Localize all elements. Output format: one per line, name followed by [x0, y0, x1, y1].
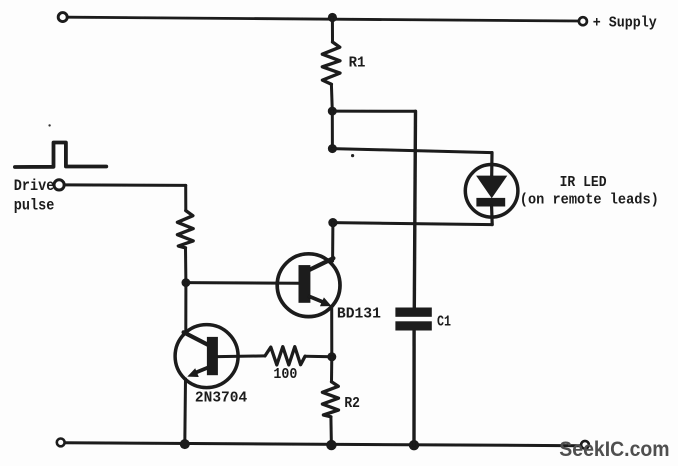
wire 2N3704 collector lead [184, 283, 187, 333]
terminal bottom right [581, 441, 589, 449]
capacitor C1 top plate [395, 308, 431, 317]
wire R1 top lead [331, 18, 334, 43]
transistor Q1 base bar [207, 337, 218, 375]
LED D1 cathode bar [476, 198, 505, 207]
svg-text:BD131: BD131 [337, 306, 381, 323]
resistor R1 [322, 42, 340, 84]
resistor R2 [322, 382, 338, 417]
transistor Q1 2N3704 circle [175, 325, 238, 388]
wire to LED [332, 149, 492, 153]
wire node to C1 branch [332, 110, 415, 113]
node emitter/R2/100 [327, 352, 336, 361]
LED D1 circle [465, 165, 518, 218]
svg-text:100: 100 [273, 366, 297, 383]
terminal + supply left [58, 13, 67, 22]
terminal drive pulse [54, 180, 64, 190]
svg-text:R1: R1 [349, 54, 366, 71]
capacitor C1 bottom plate [395, 321, 431, 330]
transistor Q2 base bar [299, 265, 311, 303]
svg-text:C1: C1 [437, 314, 451, 331]
wire BD131 emitter lead [330, 307, 333, 357]
wire R2 bottom lead [329, 417, 333, 445]
node bottom rail R2 [326, 440, 336, 450]
wire 100 right lead [305, 355, 332, 359]
wire C1 bottom lead [412, 331, 416, 446]
resistor 100 [265, 347, 305, 365]
terminal bottom left [57, 439, 65, 447]
LED D1 anode triangle [476, 176, 507, 199]
resistor left unlabeled [177, 211, 193, 248]
svg-text:IR LED: IR LED [560, 174, 607, 191]
svg-text:+ Supply: + Supply [593, 15, 657, 32]
svg-text:Drive: Drive [14, 177, 55, 195]
wire bottom rail [64, 443, 580, 446]
svg-text:R2: R2 [344, 395, 360, 412]
node BD131 collector [328, 218, 337, 227]
wire node-to-node vertical [331, 111, 334, 149]
transistor Q2 emitter stroke [310, 297, 324, 303]
node top rail / R1 [328, 13, 337, 22]
transistor Q1 emitter arrowhead [187, 368, 199, 377]
wire top rail [67, 17, 579, 21]
wire R1 bottom lead [330, 84, 334, 111]
transistor Q2 collector stroke [310, 258, 334, 270]
wire BD131 base lead [186, 281, 299, 285]
node bottom rail left [180, 439, 190, 449]
node base BD131 / collector 2N3704 [182, 278, 191, 287]
wire left resistor bottom lead [184, 248, 187, 283]
terminal + supply right [579, 17, 587, 25]
speck [351, 154, 354, 157]
wire drive input [64, 183, 185, 187]
svg-text:SeekIC.com: SeekIC.com [559, 438, 669, 461]
wire 2N3704 base to resistor [218, 354, 265, 358]
svg-text:(on remote leads): (on remote leads) [520, 192, 659, 209]
transistor Q2 emitter arrowhead [320, 297, 332, 306]
svg-text:2N3704: 2N3704 [195, 389, 247, 406]
wire 2N3704 emitter lead [183, 379, 187, 444]
transistor Q1 emitter stroke [197, 368, 208, 373]
wire LED top lead [490, 153, 493, 176]
node bottom rail C1 [409, 440, 419, 450]
pulse waveform [15, 143, 106, 168]
node LED branch [328, 144, 337, 153]
node R1 bottom [328, 107, 337, 116]
wire left branch vertical [184, 185, 187, 210]
transistor Q2 BD131 circle [277, 254, 340, 317]
wire BD131 collector lead [331, 223, 334, 261]
wire C1 branch vertical upper [414, 111, 415, 307]
speck [48, 124, 50, 126]
wire LED bottom lead [490, 207, 494, 225]
svg-text:pulse: pulse [14, 196, 55, 214]
wire R2 top lead [330, 357, 333, 382]
wire LED return to collector node [333, 223, 492, 225]
transistor Q1 collector stroke [184, 332, 209, 345]
